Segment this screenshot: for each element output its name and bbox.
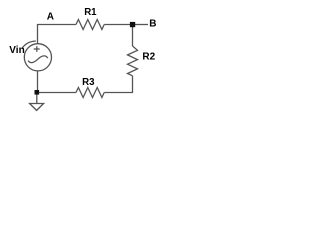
svg-text:R1: R1 xyxy=(84,7,97,18)
wire node B down to R2 xyxy=(132,27,134,46)
ground symbol xyxy=(30,104,44,111)
wire source bottom to ground node xyxy=(37,71,39,91)
junction node B xyxy=(130,22,135,27)
wire R2 to bottom rail corner xyxy=(104,76,132,93)
wire ground node down to ground symbol xyxy=(36,95,38,104)
svg-text:R2: R2 xyxy=(142,51,155,62)
leader curve from Vin label to source xyxy=(22,41,36,49)
wire bottom rail left segment xyxy=(39,92,76,94)
voltage source Vin circle xyxy=(24,44,51,71)
resistor R2 xyxy=(128,46,138,76)
svg-text:Vin: Vin xyxy=(9,45,24,56)
plus polarity mark xyxy=(34,48,40,50)
svg-text:R3: R3 xyxy=(82,77,95,88)
resistor R1 xyxy=(76,20,104,30)
resistor R3 xyxy=(76,88,104,98)
wire R1 to node B xyxy=(104,24,130,26)
svg-text:B: B xyxy=(149,19,156,30)
wire top-left corner from source top to R1 xyxy=(38,25,77,44)
wire node B stub to label B xyxy=(135,24,149,26)
svg-text:A: A xyxy=(47,12,54,23)
sine wave inside source xyxy=(28,56,48,63)
junction ground node xyxy=(35,90,40,95)
